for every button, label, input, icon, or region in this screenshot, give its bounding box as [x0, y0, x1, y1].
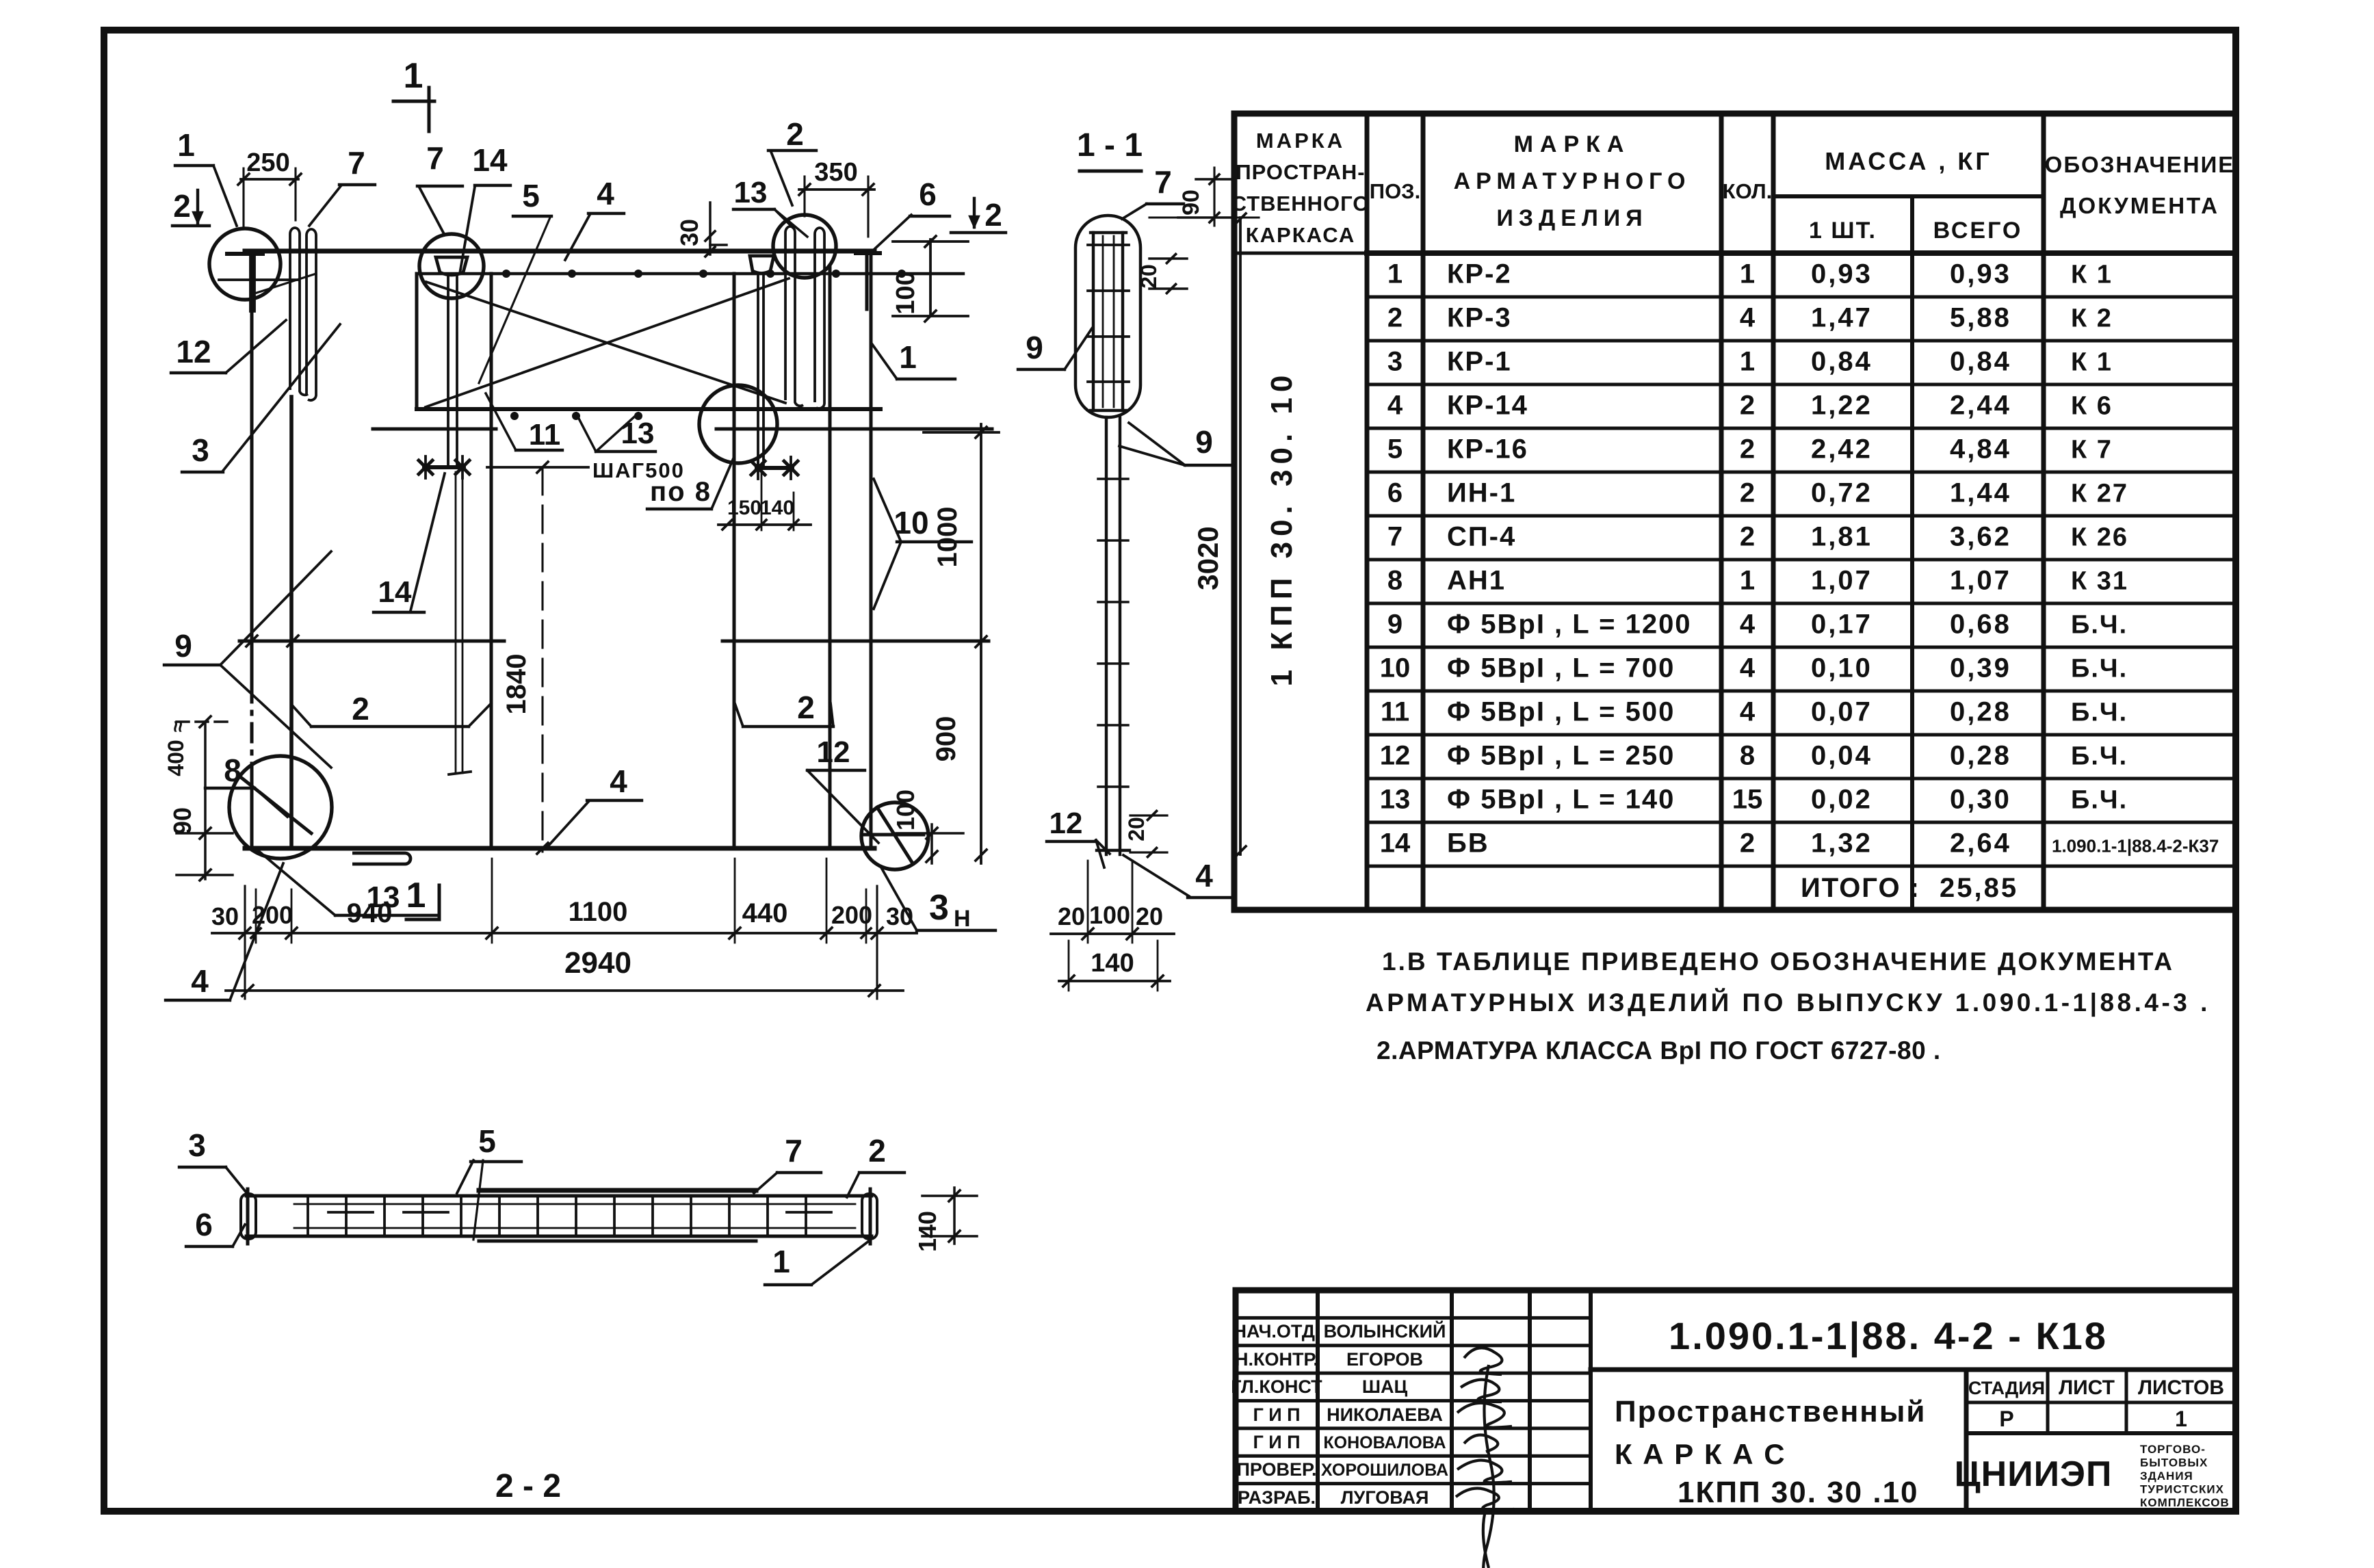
svg-text:РАЗРАБ.: РАЗРАБ.: [1238, 1487, 1316, 1508]
svg-text:3020: 3020: [1192, 526, 1224, 590]
svg-text:7: 7: [1154, 164, 1172, 200]
rungs: [306, 1199, 309, 1233]
svg-text:Б.Ч.: Б.Ч.: [2071, 786, 2128, 815]
dim 3020: [1239, 218, 1242, 854]
svg-text:1,81: 1,81: [1811, 522, 1873, 552]
svg-text:200: 200: [252, 901, 293, 929]
bottom dim row 1: [212, 932, 917, 935]
svg-text:440: 440: [742, 898, 788, 928]
svg-text:0,28: 0,28: [1950, 697, 2011, 727]
svg-text:13: 13: [1380, 785, 1411, 815]
svg-text:0,04: 0,04: [1811, 741, 1873, 771]
svg-text:Г И П: Г И П: [1253, 1404, 1300, 1425]
svg-text:1: 1: [404, 56, 423, 96]
signatures: [1464, 1348, 1502, 1374]
beam bottom line: [417, 407, 881, 411]
bottom chord: [245, 846, 874, 851]
svg-text:2: 2: [797, 690, 815, 725]
svg-text:ВСЕГО: ВСЕГО: [1933, 218, 2023, 244]
long bar x1213: [829, 267, 832, 848]
svg-text:МАРКА: МАРКА: [1256, 129, 1345, 153]
svg-text:2: 2: [786, 116, 804, 152]
svg-text:30: 30: [886, 902, 913, 930]
svg-text:14: 14: [378, 575, 412, 609]
svg-text:90: 90: [168, 807, 196, 835]
svg-text:7: 7: [426, 140, 444, 176]
svg-text:3: 3: [929, 888, 949, 928]
svg-text:9: 9: [174, 628, 192, 664]
svg-text:2: 2: [173, 188, 191, 224]
svg-text:К 6: К 6: [2071, 392, 2113, 421]
svg-text:1: 1: [406, 876, 426, 915]
svg-text:4: 4: [1195, 858, 1213, 893]
svg-text:1,44: 1,44: [1950, 478, 2011, 508]
svg-text:2,64: 2,64: [1950, 828, 2011, 859]
dim 20: [1149, 257, 1187, 260]
svg-text:0,72: 0,72: [1811, 478, 1873, 508]
svg-text:КР-14: КР-14: [1447, 391, 1528, 421]
svg-text:1840: 1840: [501, 654, 532, 715]
svg-text:9: 9: [1026, 330, 1043, 365]
dim chain right (1000/900): [980, 424, 982, 863]
svg-text:1,07: 1,07: [1811, 566, 1873, 596]
left end cap: [241, 1194, 256, 1239]
top chord bar 4: [245, 249, 874, 254]
svg-text:100: 100: [1089, 901, 1130, 929]
svg-text:3: 3: [192, 432, 209, 468]
svg-text:2: 2: [868, 1133, 886, 1168]
hairpin pair left 2: [306, 229, 316, 400]
svg-text:КР-16: КР-16: [1447, 434, 1528, 465]
hairpin pair right 2: [815, 228, 824, 408]
svg-text:АН1: АН1: [1447, 566, 1506, 596]
svg-text:400: 400: [164, 740, 188, 776]
svg-text:1,32: 1,32: [1811, 828, 1873, 859]
svg-text:К 7: К 7: [2071, 436, 2113, 465]
dim 400/90 left: [204, 722, 207, 879]
svg-text:14: 14: [1380, 828, 1411, 859]
svg-text:12: 12: [176, 334, 211, 369]
detail circle 4: [699, 385, 777, 463]
hairpin pair right 1: [785, 226, 803, 406]
svg-text:1: 1: [1740, 566, 1755, 596]
svg-text:6: 6: [1387, 478, 1403, 508]
svg-text:30: 30: [211, 902, 239, 930]
second bottom line: [373, 428, 496, 431]
svg-text:0,10: 0,10: [1811, 653, 1873, 683]
capsule rungs: [1088, 244, 1129, 246]
svg-text:30: 30: [675, 219, 703, 246]
svg-text:900: 900: [931, 716, 961, 762]
svg-text:250: 250: [246, 148, 289, 177]
svg-text:Г И П: Г И П: [1253, 1432, 1300, 1452]
svg-text:0,07: 0,07: [1811, 697, 1873, 727]
svg-text:2,44: 2,44: [1950, 391, 2011, 421]
dim 20|100|20: [1051, 932, 1174, 935]
svg-text:3: 3: [188, 1127, 206, 1163]
svg-text:2: 2: [1740, 522, 1755, 552]
svg-text:9: 9: [1387, 610, 1403, 640]
svg-text:КР-1: КР-1: [1447, 347, 1512, 377]
svg-text:ТОРГОВО-: ТОРГОВО-: [2140, 1443, 2206, 1456]
svg-text:2: 2: [352, 691, 369, 727]
svg-text:0,17: 0,17: [1811, 610, 1873, 640]
svg-text:СП-4: СП-4: [1447, 522, 1516, 552]
svg-text:1 ШТ.: 1 ШТ.: [1809, 218, 1877, 244]
svg-text:4: 4: [191, 963, 209, 999]
svg-text:НИКОЛАЕВА: НИКОЛАЕВА: [1327, 1404, 1443, 1425]
long bar x718: [490, 274, 493, 848]
svg-text:2 - 2: 2 - 2: [495, 1468, 561, 1504]
svg-text:Ф 5ВрI , L = 700: Ф 5ВрI , L = 700: [1447, 653, 1675, 683]
svg-text:АРМАТУРНОГО: АРМАТУРНОГО: [1454, 168, 1691, 194]
inner mid dashes: [328, 1211, 373, 1214]
svg-text:ДОКУМЕНТА: ДОКУМЕНТА: [2060, 193, 2219, 218]
long bar 3 (left, dash-dot): [250, 251, 254, 684]
svg-text:0,28: 0,28: [1950, 741, 2011, 771]
overlay flange 5 top: [479, 1188, 756, 1193]
dim 350: [799, 188, 874, 191]
svg-text:ЕГОРОВ: ЕГОРОВ: [1346, 1349, 1423, 1370]
svg-text:200: 200: [831, 901, 872, 929]
dim 100 bottom right: [930, 824, 933, 863]
svg-text:8: 8: [1740, 741, 1755, 771]
dim 30 top: [709, 202, 712, 254]
svg-text:4: 4: [1740, 610, 1756, 640]
svg-text:БВ: БВ: [1447, 828, 1489, 859]
svg-text:КОЛ.: КОЛ.: [1723, 179, 1773, 203]
pin with T-cap in circle 1: [227, 252, 263, 256]
svg-text:350: 350: [814, 158, 857, 187]
svg-text:Ф 5ВрI , L = 250: Ф 5ВрI , L = 250: [1447, 741, 1675, 771]
svg-text:20: 20: [1136, 264, 1161, 289]
pin lower extension: [455, 472, 457, 773]
svg-text:Р: Р: [1999, 1407, 2013, 1431]
svg-text:4: 4: [597, 176, 614, 211]
overlay flange bottom: [479, 1240, 756, 1243]
svg-text:Н.КОНТР.: Н.КОНТР.: [1235, 1349, 1318, 1370]
svg-text:20: 20: [1136, 902, 1163, 930]
svg-text:ХОРОШИЛОВА: ХОРОШИЛОВА: [1321, 1461, 1448, 1480]
svg-text:СТАДИЯ: СТАДИЯ: [1968, 1378, 2045, 1398]
svg-text:1: 1: [1740, 259, 1755, 289]
X diagonals: [426, 278, 789, 407]
inner bars: [1092, 233, 1095, 410]
svg-text:ШАЦ: ШАЦ: [1362, 1376, 1408, 1397]
svg-text:100: 100: [891, 789, 919, 831]
svg-text:2: 2: [1740, 828, 1755, 859]
svg-text:0,02: 0,02: [1811, 785, 1873, 815]
svg-text:1: 1: [1740, 347, 1755, 377]
svg-text:8: 8: [224, 753, 242, 788]
tie bars 2 level: [239, 640, 504, 643]
svg-text:12: 12: [1380, 741, 1411, 771]
svg-text:ОБОЗНАЧЕНИЕ: ОБОЗНАЧЕНИЕ: [2045, 152, 2235, 177]
svg-text:0,84: 0,84: [1950, 347, 2011, 377]
svg-text:6: 6: [195, 1207, 213, 1242]
svg-text:Ф 5ВрI , L = 140: Ф 5ВрI , L = 140: [1447, 785, 1675, 815]
svg-text:ТУРИСТСКИХ: ТУРИСТСКИХ: [2140, 1483, 2224, 1496]
svg-text:ГЛ.КОНСТ: ГЛ.КОНСТ: [1231, 1376, 1322, 1397]
dim 140 right: [953, 1188, 956, 1244]
svg-text:КАРКАСА: КАРКАСА: [1246, 223, 1356, 247]
svg-text:К А Р К А С: К А Р К А С: [1615, 1438, 1786, 1470]
hairpin pair left 1: [290, 228, 308, 395]
svg-text:2: 2: [984, 197, 1002, 233]
svg-text:К 1: К 1: [2071, 261, 2113, 289]
svg-text:7: 7: [348, 145, 365, 181]
svg-text:7: 7: [1387, 522, 1403, 552]
svg-text:СТВЕННОГО: СТВЕННОГО: [1231, 192, 1370, 215]
svg-text:К 31: К 31: [2071, 567, 2128, 596]
dim 250 top left: [241, 178, 298, 181]
svg-text:5: 5: [478, 1123, 496, 1159]
svg-text:К 2: К 2: [2071, 304, 2113, 333]
detail circle 5 (bottom left): [229, 756, 332, 859]
tie right with X ends: [757, 466, 792, 470]
detail circle 3 (top right): [773, 215, 836, 278]
svg-text:1 КПП 30. 30. 10: 1 КПП 30. 30. 10: [1265, 370, 1299, 687]
svg-text:Н: Н: [954, 906, 971, 932]
svg-text:ВОЛЫНСКИЙ: ВОЛЫНСКИЙ: [1324, 1320, 1446, 1342]
svg-text:4: 4: [1387, 391, 1403, 421]
beam left edge: [415, 274, 419, 409]
svg-text:25,85: 25,85: [1940, 873, 2018, 903]
svg-text:Б.Ч.: Б.Ч.: [2071, 698, 2128, 727]
svg-text:МАРКА: МАРКА: [1514, 131, 1631, 157]
detail circle 1 (top left): [209, 228, 281, 300]
top rebar line 5 with dots: [419, 272, 963, 275]
svg-text:К 1: К 1: [2071, 348, 2113, 377]
dim 140: [1059, 980, 1170, 982]
svg-text:90: 90: [1178, 190, 1204, 215]
bottom dim row 2 (2940): [226, 989, 903, 992]
svg-text:8: 8: [1387, 566, 1403, 596]
svg-text:1,47: 1,47: [1811, 303, 1873, 333]
hook bar 13 bottom: [352, 853, 410, 864]
svg-text:140: 140: [1091, 949, 1134, 978]
svg-text:КОМПЛЕКСОВ: КОМПЛЕКСОВ: [2140, 1496, 2230, 1509]
svg-text:1.В ТАБЛИЦЕ ПРИВЕДЕНО ОБОЗНА: 1.В ТАБЛИЦЕ ПРИВЕДЕНО ОБОЗНАЧЕНИЕ ДОКУМЕ…: [1382, 948, 2174, 976]
svg-text:КР-3: КР-3: [1447, 303, 1512, 333]
svg-text:К 26: К 26: [2071, 523, 2128, 552]
svg-text:ЗДАНИЯ: ЗДАНИЯ: [2140, 1469, 2193, 1482]
right end cap: [862, 1194, 877, 1239]
svg-text:140: 140: [760, 497, 794, 519]
dim 100 top right: [929, 239, 932, 316]
svg-text:1.090.1-1|88.4-2-К37: 1.090.1-1|88.4-2-К37: [2052, 836, 2219, 857]
svg-text:БЫТОВЫХ: БЫТОВЫХ: [2140, 1456, 2208, 1469]
long bar x1073: [733, 274, 736, 848]
svg-text:2: 2: [1740, 478, 1755, 508]
svg-text:КОНОВАЛОВА: КОНОВАЛОВА: [1323, 1433, 1446, 1452]
cup left: [436, 257, 467, 275]
svg-text:ИТОГО :: ИТОГО :: [1801, 873, 1920, 903]
svg-text:1: 1: [1387, 259, 1403, 289]
svg-text:11: 11: [529, 418, 561, 452]
svg-text:≈: ≈: [167, 721, 190, 732]
svg-text:ЛУГОВАЯ: ЛУГОВАЯ: [1341, 1487, 1429, 1508]
svg-text:5: 5: [522, 178, 540, 213]
svg-text:Пространственный: Пространственный: [1615, 1395, 1926, 1428]
svg-text:6: 6: [919, 177, 937, 212]
svg-text:4: 4: [1740, 697, 1756, 727]
svg-text:7: 7: [785, 1133, 803, 1168]
svg-text:0,39: 0,39: [1950, 653, 2011, 683]
svg-text:150: 150: [727, 497, 761, 519]
svg-text:0,84: 0,84: [1811, 347, 1873, 377]
svg-text:Ф 5ВрI , L = 500: Ф 5ВрI , L = 500: [1447, 697, 1675, 727]
svg-text:Ф 5ВрI , L = 1200: Ф 5ВрI , L = 1200: [1447, 610, 1692, 640]
svg-text:МАССА , КГ: МАССА , КГ: [1825, 147, 1992, 175]
svg-text:5,88: 5,88: [1950, 303, 2011, 333]
svg-text:20: 20: [1124, 817, 1149, 841]
svg-text:13: 13: [621, 417, 655, 450]
svg-text:К 27: К 27: [2071, 480, 2128, 508]
svg-text:ПРОВЕР.: ПРОВЕР.: [1236, 1459, 1316, 1480]
svg-text:13: 13: [734, 176, 768, 209]
svg-text:12: 12: [1049, 807, 1083, 840]
svg-text:ЛИСТ: ЛИСТ: [2059, 1376, 2115, 1399]
dim 20 bottom: [1130, 814, 1167, 816]
svg-text:0,30: 0,30: [1950, 785, 2011, 815]
svg-text:ПРОСТРАН-: ПРОСТРАН-: [1236, 160, 1365, 184]
svg-text:4: 4: [610, 763, 627, 799]
svg-text:Б.Ч.: Б.Ч.: [2071, 655, 2128, 683]
svg-text:140: 140: [913, 1211, 941, 1252]
svg-text:ИН-1: ИН-1: [1447, 478, 1516, 508]
cup pin right: [750, 256, 774, 274]
svg-text:2940: 2940: [564, 946, 631, 980]
svg-text:2: 2: [1740, 391, 1755, 421]
parts table: [1234, 114, 2236, 910]
long bar 1 (right): [870, 251, 873, 848]
svg-text:2.АРМАТУРА КЛАССА ВрI ПО ГО: 2.АРМАТУРА КЛАССА ВрI ПО ГОСТ 6727-80 .: [1377, 1036, 1941, 1064]
long bar x426: [289, 397, 294, 848]
svg-text:0,68: 0,68: [1950, 610, 2011, 640]
dim 90: [1196, 178, 1231, 181]
svg-text:1: 1: [2175, 1407, 2187, 1431]
svg-text:1: 1: [177, 127, 195, 163]
section mark 2 right: [973, 198, 976, 227]
svg-text:КР-2: КР-2: [1447, 259, 1512, 289]
svg-text:1000: 1000: [932, 507, 963, 568]
svg-text:5: 5: [1387, 434, 1403, 465]
svg-text:Б.Ч.: Б.Ч.: [2071, 611, 2128, 640]
svg-text:12: 12: [817, 735, 850, 769]
svg-text:0,93: 0,93: [1811, 259, 1873, 289]
svg-text:2: 2: [1387, 303, 1403, 333]
svg-text:3: 3: [1387, 347, 1403, 377]
detail circle 6 (bottom right): [861, 802, 928, 870]
svg-text:10: 10: [1380, 653, 1411, 683]
svg-text:Б.Ч.: Б.Ч.: [2071, 742, 2128, 771]
dim 1840 (dashed centerline): [541, 467, 543, 852]
svg-text:1КПП 30. 30 .10: 1КПП 30. 30 .10: [1678, 1476, 1919, 1509]
svg-text:4: 4: [1740, 653, 1756, 683]
svg-text:1,07: 1,07: [1950, 566, 2011, 596]
svg-text:ЛИСТОВ: ЛИСТОВ: [2138, 1376, 2224, 1399]
svg-text:1,22: 1,22: [1811, 391, 1873, 421]
svg-text:2,42: 2,42: [1811, 434, 1873, 465]
svg-text:14: 14: [472, 142, 508, 178]
svg-text:1: 1: [899, 339, 917, 375]
svg-text:4,84: 4,84: [1950, 434, 2011, 465]
svg-text:ПОЗ.: ПОЗ.: [1370, 179, 1420, 203]
svg-text:НАЧ.ОТД.: НАЧ.ОТД.: [1234, 1321, 1320, 1342]
svg-text:2: 2: [1740, 434, 1755, 465]
svg-text:3,62: 3,62: [1950, 522, 2011, 552]
svg-text:1.090.1-1|88. 4-2 - К18: 1.090.1-1|88. 4-2 - К18: [1669, 1314, 2108, 1358]
svg-text:1: 1: [772, 1244, 790, 1279]
column: [1105, 417, 1108, 854]
svg-text:0,93: 0,93: [1950, 259, 2011, 289]
svg-text:100: 100: [891, 271, 920, 314]
girder top/bottom chords: [246, 1194, 872, 1198]
svg-text:ИЗДЕЛИЯ: ИЗДЕЛИЯ: [1496, 205, 1647, 231]
svg-text:20: 20: [1058, 902, 1085, 930]
svg-text:15: 15: [1732, 785, 1763, 815]
svg-text:АРМАТУРНЫХ ИЗДЕЛИЙ ПО ВЫПУСК: АРМАТУРНЫХ ИЗДЕЛИЙ ПО ВЫПУСКУ 1.090.1-1|…: [1366, 988, 2210, 1017]
capsule outline: [1075, 215, 1140, 417]
svg-text:940: 940: [347, 898, 393, 928]
title block: [1236, 1290, 2236, 1511]
tie 14 left with X ends: [424, 465, 464, 469]
svg-text:9: 9: [1195, 424, 1213, 460]
svg-text:по 8: по 8: [650, 477, 712, 507]
svg-text:4: 4: [1740, 303, 1756, 333]
svg-text:11: 11: [1381, 697, 1409, 727]
T-bar item 6: [856, 251, 880, 255]
svg-text:1 - 1: 1 - 1: [1077, 127, 1143, 164]
svg-text:ЦНИИЭП: ЦНИИЭП: [1955, 1454, 2113, 1494]
svg-text:1100: 1100: [569, 897, 628, 927]
detail circle 2 (cup pin left): [419, 234, 484, 298]
